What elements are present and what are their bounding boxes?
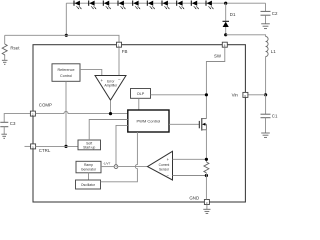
LED 6	[147, 1, 155, 10]
wire COMP external to C3	[4, 114, 30, 123]
svg-text:−: −	[118, 77, 121, 82]
wire SW node rail to L1	[226, 35, 266, 37]
svg-text:Oscillator: Oscillator	[81, 183, 96, 187]
wire Reference Control to CTRL rail	[65, 81, 67, 146]
node drain / OLP junction	[205, 93, 208, 96]
wire PWM Control to MOSFET gate	[169, 123, 199, 125]
svg-text:D1: D1	[230, 12, 236, 17]
svg-text:FB: FB	[122, 49, 128, 54]
pin CTRL (5)	[31, 144, 36, 149]
ground (Rset)	[2, 60, 8, 64]
node CTRL / reference junction	[64, 145, 67, 148]
node SW junction	[224, 33, 227, 36]
summing node	[114, 165, 118, 169]
svg-text:OLP: OLP	[137, 92, 145, 96]
wire D1 anode drop	[225, 3, 227, 21]
pin FB (1)	[117, 42, 122, 47]
ground (C3)	[1, 134, 7, 138]
op-amp U1 Error Amplifier	[95, 76, 126, 101]
pin GND (3)	[204, 200, 209, 205]
svg-text:Rset: Rset	[10, 46, 20, 51]
LED 9	[191, 1, 199, 10]
svg-text:COMP: COMP	[39, 102, 52, 107]
svg-text:C2: C2	[272, 11, 278, 16]
svg-text:Vin: Vin	[232, 93, 239, 98]
svg-text:Ramp: Ramp	[84, 163, 93, 167]
capacitor C1	[261, 114, 271, 118]
resistor Rset	[2, 44, 7, 56]
capacitor C2	[261, 11, 271, 15]
svg-text:+: +	[115, 165, 117, 169]
LED 3	[103, 1, 111, 10]
ground (C2)	[261, 24, 270, 29]
wire Current Sensor - input	[173, 175, 207, 177]
wire CTRL pin to Soft Start-up	[36, 145, 78, 147]
LED 5	[133, 1, 141, 10]
LED 8	[177, 1, 185, 10]
pin Vin (6)	[243, 92, 248, 97]
capacitor C3	[0, 122, 8, 126]
node D1 top junction	[224, 2, 227, 5]
wire Vin pin to node	[248, 94, 266, 96]
box Ramp Generator	[76, 161, 101, 173]
wire FB pin to error amp inverting input	[118, 47, 120, 75]
svg-text:Amplifier: Amplifier	[104, 83, 118, 87]
box Oscillator	[76, 180, 101, 189]
wire CTRL external stub	[25, 145, 31, 147]
node error amp output / COMP	[109, 112, 112, 115]
svg-text:C1: C1	[272, 113, 278, 118]
svg-text:L1: L1	[271, 49, 276, 54]
box OLP	[131, 89, 151, 99]
box Soft Start-up	[78, 140, 101, 150]
wire summing node to PWM Control	[116, 125, 128, 164]
svg-text:+: +	[101, 78, 104, 83]
svg-text:GND: GND	[189, 196, 199, 201]
box PWM Control	[128, 110, 169, 132]
svg-text:C3: C3	[10, 121, 16, 126]
svg-text:CTRL: CTRL	[39, 148, 51, 153]
wire LED string left drop to FB node	[65, 3, 67, 35]
wire L1 to Vin node	[265, 57, 267, 95]
diode D1	[223, 21, 230, 27]
wire GND pin to ground	[206, 205, 208, 210]
pin SW (8)	[222, 42, 227, 47]
svg-text:Start-up: Start-up	[83, 145, 95, 149]
wire Soft Start-up to PWM Control	[89, 120, 128, 141]
LED 10	[206, 1, 214, 10]
wire SW pin to MOSFET drain	[206, 47, 224, 118]
node sense resistor top	[205, 158, 208, 161]
ground (GND pin)	[203, 209, 210, 213]
wire top-right corner down to C2	[265, 3, 267, 11]
wire MOSFET source to sense resistor	[205, 130, 207, 162]
node sense resistor bottom	[205, 174, 208, 177]
LED 4	[118, 1, 126, 10]
wire Ramp Generator to summing node	[101, 166, 114, 168]
node LED cathode / FB sense junction	[65, 34, 68, 37]
wire error amp output to COMP rail	[110, 100, 112, 113]
LED 2	[89, 1, 97, 10]
wire Vin node to C1	[265, 95, 267, 114]
wire FB sense rail	[5, 35, 119, 42]
wire Rset drop	[4, 35, 6, 44]
wire Ramp Generator to Oscillator	[88, 173, 90, 180]
wire summing node to Current Sensor output	[118, 166, 147, 168]
resistor current sense	[204, 162, 209, 173]
svg-text:-1/VT: -1/VT	[103, 162, 111, 166]
wire sense resistor to GND pin	[205, 173, 207, 199]
inductor L1	[266, 37, 269, 57]
wire D1 to SW node	[225, 27, 227, 35]
svg-text:PWM Control: PWM Control	[137, 118, 161, 123]
svg-text:Generator: Generator	[81, 167, 97, 171]
svg-text:Sensor: Sensor	[159, 167, 170, 171]
transistor Q1 power MOSFET	[199, 118, 206, 131]
LED 1	[74, 1, 82, 10]
op-amp Current Sensor	[148, 151, 173, 180]
wire Reference Control to error amp non-inverting input	[80, 69, 102, 75]
wire OLP to switch drain node	[151, 94, 207, 96]
IC block boundary	[33, 45, 245, 202]
wire Current Sensor + input	[173, 158, 207, 160]
wire LED string top rail	[66, 2, 265, 4]
LED 7	[162, 1, 170, 10]
svg-text:Control: Control	[60, 74, 72, 78]
svg-text:SW: SW	[214, 53, 222, 58]
svg-text:Reference: Reference	[57, 68, 74, 72]
pin COMP (2)	[30, 111, 35, 116]
wire Oscillator to PWM Control (hop over sensor wire)	[101, 132, 138, 182]
wire COMP rail (pin to PWM Control, hop over vertical)	[35, 112, 127, 114]
box Reference Control	[52, 64, 80, 82]
ground (C1)	[261, 133, 270, 137]
wire OLP to PWM Control	[138, 98, 140, 110]
node Vin junction	[264, 93, 267, 96]
